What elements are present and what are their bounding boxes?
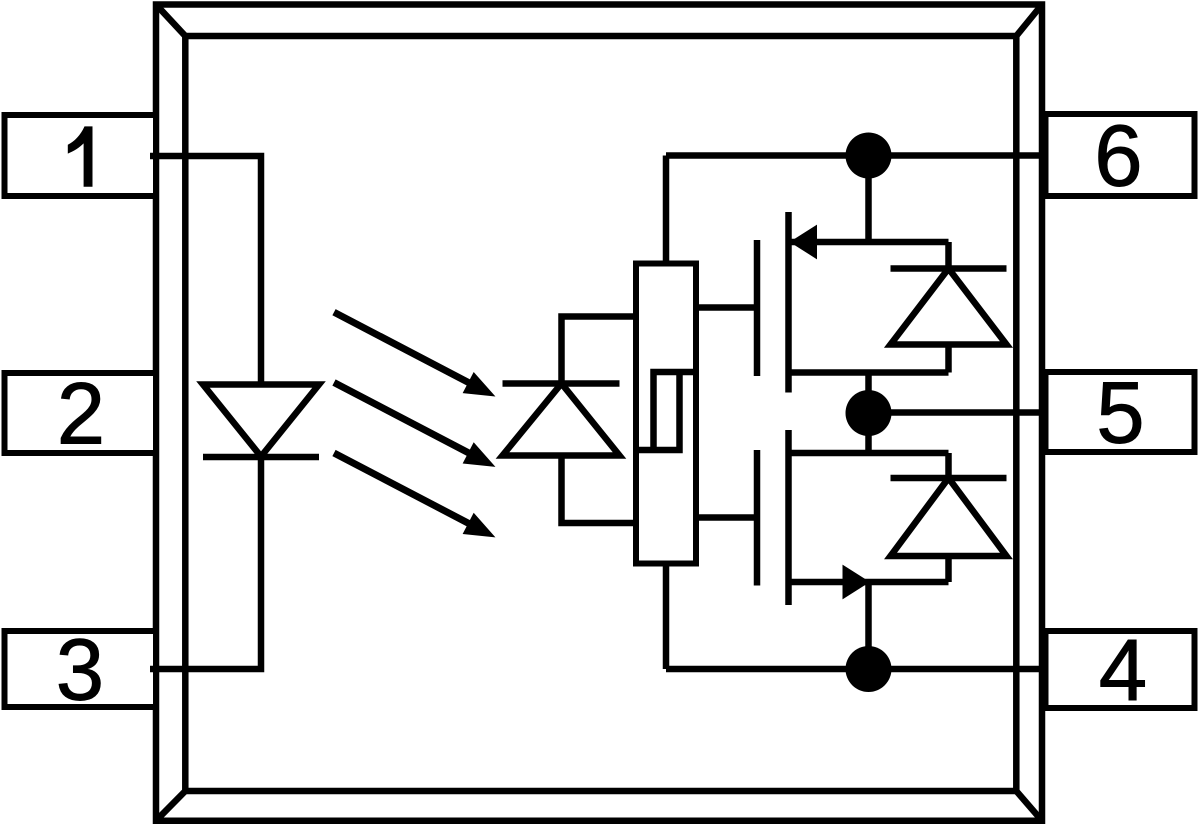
svg-text:3: 3 bbox=[56, 622, 104, 719]
mosfet Q2 (bottom) bbox=[757, 430, 949, 605]
junction node at pin 6 bbox=[846, 133, 892, 179]
wire gate of Q2 bbox=[696, 514, 757, 521]
photodiode PD bbox=[503, 384, 620, 456]
wire LED cathode to pin 3 bbox=[150, 457, 261, 670]
pin 5 box bbox=[1046, 372, 1195, 452]
package corner bevel top-right bbox=[1016, 5, 1042, 37]
wire PD anode to control block bbox=[562, 456, 637, 524]
wire pin 1 to LED anode bbox=[150, 156, 261, 385]
pin 6 box bbox=[1046, 114, 1195, 196]
body diode D2 (top mosfet) bbox=[891, 242, 1007, 373]
junction node at pin 4 bbox=[846, 646, 892, 692]
junction node at pin 5 bbox=[846, 390, 892, 436]
pin 3 box bbox=[5, 631, 157, 707]
wire Q1 source to node at pin 5 bbox=[865, 373, 872, 414]
package outer body bbox=[156, 5, 1042, 821]
pin 3 label bbox=[56, 622, 104, 719]
package inner body bbox=[185, 36, 1016, 791]
svg-text:6: 6 bbox=[1094, 108, 1142, 205]
wire PD cathode to control block bbox=[562, 317, 637, 384]
control block U1 bbox=[636, 264, 696, 564]
svg-text:5: 5 bbox=[1096, 365, 1144, 462]
wire Q2 drain to node at pin 5 bbox=[865, 413, 872, 454]
LED D1 input diode bbox=[203, 385, 319, 458]
light ray arrow 2 bbox=[334, 383, 493, 466]
package corner bevel top-left bbox=[156, 5, 185, 37]
wire control block top to drain bus bbox=[663, 156, 670, 264]
package corner bevel bottom-right bbox=[1016, 791, 1042, 821]
pin 6 label bbox=[1094, 108, 1142, 205]
svg-text:2: 2 bbox=[57, 366, 105, 463]
pin 5 label bbox=[1096, 365, 1144, 462]
light ray arrow 1 bbox=[334, 312, 493, 395]
svg-text:4: 4 bbox=[1099, 622, 1147, 719]
bottom bus wire to pin 4 bbox=[666, 666, 1045, 673]
mosfet Q1 (top) bbox=[757, 212, 949, 393]
pin 1 label bbox=[68, 126, 93, 186]
pin 2 label bbox=[57, 366, 105, 463]
body diode D3 (bottom mosfet) bbox=[891, 453, 1007, 582]
wire Q2 source to bottom bus bbox=[865, 582, 872, 669]
wire control block bottom to source bus bbox=[663, 564, 670, 670]
wire gate of Q1 bbox=[696, 304, 757, 311]
pin 4 box bbox=[1046, 631, 1195, 708]
pin 4 label bbox=[1099, 622, 1147, 719]
top bus wire to pin 6 bbox=[666, 152, 1045, 159]
package corner bevel bottom-left bbox=[156, 791, 185, 821]
pin 2 box bbox=[5, 373, 157, 453]
wire Q1 drain to top bus bbox=[865, 156, 872, 243]
light ray arrow 3 bbox=[334, 453, 493, 536]
wire node to pin 5 bbox=[869, 409, 1046, 416]
control block inner symbol bbox=[636, 372, 696, 450]
pin 1 box bbox=[5, 115, 157, 196]
